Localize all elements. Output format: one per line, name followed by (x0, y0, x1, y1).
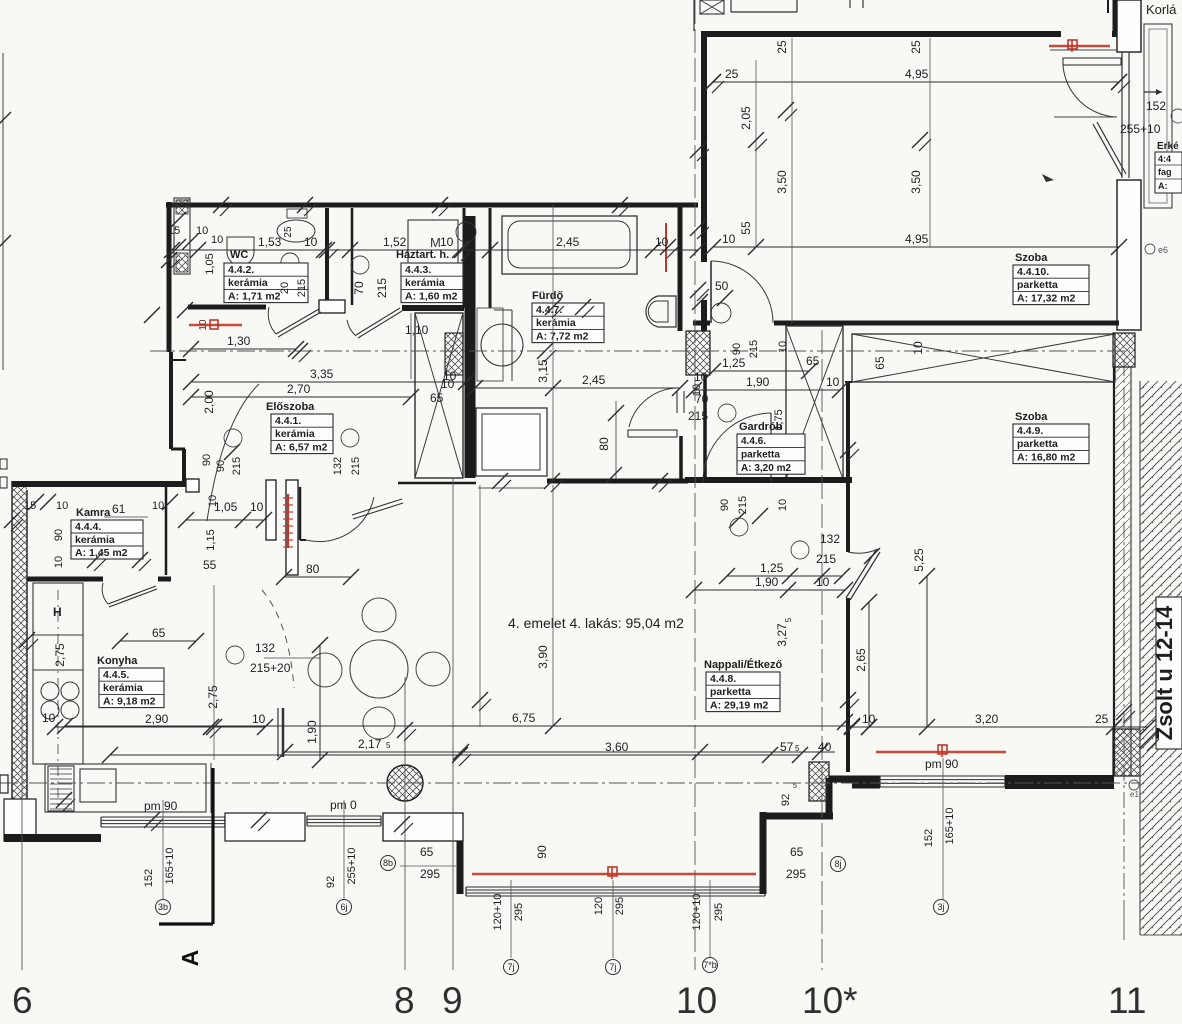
svg-text:10: 10 (252, 712, 266, 726)
svg-text:3,27: 3,27 (775, 623, 789, 647)
washer circle (456, 222, 476, 242)
svg-text:1,90: 1,90 (746, 375, 770, 389)
svg-text:8b: 8b (383, 858, 393, 868)
svg-text:1,25: 1,25 (760, 561, 784, 575)
horizontal axis upper (150, 350, 1130, 352)
svg-text:WC: WC (230, 249, 248, 261)
svg-text:H: H (53, 605, 62, 619)
svg-text:7*b: 7*b (703, 960, 717, 970)
svg-text:80: 80 (597, 437, 611, 451)
svg-text:11: 11 (1108, 980, 1146, 1021)
dim row 2,17 (285, 751, 461, 753)
svg-text:10: 10 (42, 711, 56, 725)
axis 9 line (452, 478, 454, 970)
svg-text:90: 90 (719, 499, 731, 511)
svg-text:Erké: Erké (1157, 141, 1179, 152)
svg-text:215: 215 (296, 279, 308, 297)
dining table (350, 640, 408, 698)
svg-text:3,50: 3,50 (909, 170, 923, 194)
svg-text:2,45: 2,45 (582, 373, 606, 387)
svg-text:2,75: 2,75 (206, 685, 220, 709)
svg-text:4.4.4.: 4.4.4. (75, 521, 101, 533)
svg-text:1,10: 1,10 (405, 323, 429, 337)
svg-text:10: 10 (56, 500, 68, 512)
svg-text:1,25: 1,25 (722, 356, 746, 370)
svg-text:295: 295 (614, 897, 626, 915)
bath toilet (646, 296, 676, 327)
terrace window long (466, 886, 765, 888)
svg-text:4.4.2.: 4.4.2. (228, 264, 254, 276)
svg-text:4.4.1.: 4.4.1. (275, 415, 301, 427)
svg-text:120+10: 120+10 (691, 893, 703, 930)
chair left (308, 653, 342, 687)
crosshatch block bottom right (1113, 729, 1140, 776)
svg-text:parketta: parketta (1017, 438, 1058, 450)
svg-text:Fürdő: Fürdő (532, 290, 563, 302)
door haztart arc (356, 308, 400, 335)
svg-text:50: 50 (715, 279, 729, 293)
svg-text:215: 215 (816, 552, 836, 566)
washing machine (408, 220, 458, 270)
dim 1,90 vert nappali (319, 645, 321, 760)
svg-text:80: 80 (306, 562, 320, 576)
svg-text:2,90: 2,90 (145, 712, 169, 726)
wall hall-nappali top (398, 482, 476, 485)
svg-text:4.4.8.: 4.4.8. (710, 673, 736, 685)
left edge squares (0, 459, 7, 469)
shaft X-box (415, 313, 463, 478)
svg-text:65: 65 (790, 845, 804, 859)
dim vertical line left szoba (755, 60, 757, 247)
svg-text:e6: e6 (1158, 245, 1168, 255)
left exterior wall crosshatch (12, 481, 27, 838)
svg-text:8: 8 (394, 980, 415, 1021)
svg-text:parketta: parketta (1017, 279, 1058, 291)
svg-text:120: 120 (593, 897, 605, 915)
svg-text:20: 20 (279, 282, 291, 294)
shaft square hall (476, 408, 547, 476)
svg-text:215: 215 (231, 457, 243, 475)
svg-text:10: 10 (53, 556, 65, 568)
wall Furdo west (465, 216, 476, 478)
e1 ref (1129, 780, 1139, 790)
hall stub wall C (299, 487, 302, 540)
axis 10* line (821, 330, 823, 970)
entrance door arc (207, 384, 259, 521)
hatch edge line (1139, 381, 1141, 935)
wall gardrob left (703, 375, 707, 482)
wall bottom of szoba 4.4.10 (693, 321, 710, 326)
circle handle eloszoba (224, 429, 242, 447)
window pm0 konyha (307, 815, 381, 817)
svg-text:A: 1,60 m2: A: 1,60 m2 (405, 290, 458, 302)
wall kamra bottom (27, 577, 103, 582)
wall right of szoba 4.4.10 lower (1121, 52, 1123, 178)
svg-text:2,00: 2,00 (202, 390, 216, 414)
window pm90 szoba 4.4.9 (880, 775, 1005, 777)
kamra door leaf (108, 586, 156, 604)
svg-text:90: 90 (535, 845, 549, 859)
red heater entrance (287, 494, 289, 548)
wall bottom of Haztart (402, 305, 464, 311)
wall left hall below (169, 352, 173, 449)
svg-text:6: 6 (12, 980, 33, 1021)
svg-text:3,60: 3,60 (605, 740, 629, 754)
svg-text:2,65: 2,65 (854, 648, 868, 672)
svg-text:6,75: 6,75 (512, 711, 536, 725)
svg-text:61: 61 (112, 502, 126, 516)
red radiator top right (1049, 45, 1110, 47)
svg-text:7j: 7j (609, 962, 616, 972)
svg-text:65: 65 (430, 391, 444, 405)
svg-text:3,90: 3,90 (536, 645, 550, 669)
ref 8b left (381, 856, 396, 871)
svg-text:Szoba: Szoba (1015, 252, 1048, 264)
wall right of szoba 4.4.10 upper (1117, 0, 1141, 52)
svg-text:A: 17,32 m2: A: 17,32 m2 (1017, 292, 1076, 304)
svg-text:40: 40 (818, 740, 832, 754)
door szoba449 leaf (846, 550, 876, 598)
svg-text:4:4: 4:4 (1158, 154, 1171, 164)
section line A (211, 768, 214, 924)
top ticks left block (170, 212, 186, 228)
red mark left WC (189, 324, 242, 326)
dim 2,70 row (191, 396, 411, 398)
svg-text:Szoba: Szoba (1015, 411, 1048, 423)
dim 2,75 vert2 (479, 485, 481, 727)
dim 2,45 row2 (475, 387, 680, 389)
balcony railing (1144, 24, 1172, 208)
svg-text:90: 90 (201, 454, 213, 466)
svg-text:152: 152 (923, 829, 935, 847)
wall ticks (213, 197, 229, 213)
svg-text:295: 295 (420, 867, 440, 881)
hall stub wall B (286, 480, 298, 575)
dim row 6,75 (65, 725, 852, 727)
wall terrace right step (760, 813, 833, 820)
svg-text:215+20: 215+20 (250, 661, 291, 675)
arrow right (1144, 91, 1162, 93)
svg-text:5: 5 (386, 741, 391, 750)
wall left of WC block (167, 202, 172, 352)
wall bottom szoba 4.4.9 right (1005, 775, 1114, 789)
small mark szoba (1042, 174, 1054, 182)
wall right of pm0 window (383, 813, 463, 841)
svg-text:2,17: 2,17 (358, 737, 382, 751)
svg-text:92: 92 (325, 876, 337, 888)
svg-text:10: 10 (207, 495, 219, 507)
svg-text:10: 10 (911, 341, 925, 355)
horizontal axis lower (0, 782, 1140, 784)
svg-text:255+10: 255+10 (1120, 122, 1161, 136)
crosshatch block top right (1113, 333, 1135, 367)
svg-text:2,70: 2,70 (287, 382, 311, 396)
svg-text:10: 10 (655, 235, 669, 249)
bath round sink (481, 324, 523, 366)
furdo niche (477, 308, 503, 381)
axis 10 line (694, 0, 696, 970)
door balcony second leaf (1097, 122, 1126, 174)
svg-text:92: 92 (780, 794, 792, 806)
svg-text:e1: e1 (1130, 790, 1139, 799)
svg-text:1,75: 1,75 (773, 409, 785, 430)
hall stub wall A (266, 480, 276, 540)
wall under X-band (845, 381, 852, 383)
svg-text:25: 25 (1095, 712, 1109, 726)
svg-text:90: 90 (731, 343, 743, 355)
svg-text:132: 132 (820, 532, 840, 546)
svg-text:A: 7,72 m2: A: 7,72 m2 (536, 330, 589, 342)
svg-text:5: 5 (795, 744, 800, 753)
haztart circle (351, 256, 369, 274)
svg-text:Nappali/Étkező: Nappali/Étkező (704, 658, 783, 671)
svg-text:295: 295 (513, 903, 525, 921)
svg-text:10: 10 (777, 499, 789, 511)
dim 10 40 right (837, 714, 853, 730)
axis 6 line (21, 690, 23, 970)
svg-text:3b: 3b (158, 902, 168, 912)
svg-text:10: 10 (196, 225, 208, 237)
axis 11 line (1123, 900, 1125, 940)
svg-text:Konyha: Konyha (97, 655, 138, 667)
wardrobe X-box gardrob (786, 326, 843, 479)
svg-text:10: 10 (211, 234, 223, 246)
svg-text:70: 70 (352, 281, 366, 295)
svg-text:1,90: 1,90 (755, 575, 779, 589)
terrace window refs right (709, 880, 711, 958)
hob burners (41, 682, 59, 700)
svg-text:65: 65 (152, 626, 166, 640)
svg-text:255+10: 255+10 (346, 847, 358, 884)
svg-text:4. emelet 4. lakás: 95,04 m2: 4. emelet 4. lakás: 95,04 m2 (508, 615, 684, 631)
svg-text:57: 57 (780, 740, 794, 754)
svg-text:4.4.9.: 4.4.9. (1017, 425, 1043, 437)
svg-text:4,95: 4,95 (905, 67, 929, 81)
svg-text:152: 152 (1146, 99, 1166, 113)
svg-text:4.4.3.: 4.4.3. (405, 264, 431, 276)
svg-text:10*: 10* (802, 980, 858, 1021)
svg-text:1,30: 1,30 (227, 334, 251, 348)
red radiator terrace (472, 873, 756, 876)
balcony wall stub top (1107, 0, 1109, 13)
dim 2,65 vert (868, 602, 870, 727)
party wall centerline (1123, 360, 1125, 900)
svg-text:25: 25 (725, 67, 739, 81)
svg-text:3,50: 3,50 (775, 170, 789, 194)
ref 8j right (831, 857, 846, 872)
kitchen bottom counter (45, 764, 206, 812)
wall gardrob bottom thick (685, 477, 852, 483)
svg-text:90: 90 (215, 460, 227, 472)
svg-text:9: 9 (442, 980, 463, 1021)
wall gardrob bottom (702, 478, 852, 484)
svg-text:6j: 6j (340, 902, 347, 912)
party wall right outer line (1113, 367, 1115, 776)
left edge line (2, 53, 4, 370)
svg-text:4.4.6.: 4.4.6. (741, 436, 766, 447)
svg-text:10: 10 (816, 575, 830, 589)
wall bottom of WC row (188, 305, 266, 310)
wall left of szoba 4.4.10 (701, 31, 707, 262)
svg-text:10: 10 (198, 319, 209, 331)
svg-text:pm 90: pm 90 (144, 799, 178, 813)
ref 3j (942, 758, 944, 900)
svg-text:215: 215 (375, 278, 389, 298)
svg-text:kerámia: kerámia (536, 317, 576, 329)
chair right (416, 652, 450, 686)
svg-text:10: 10 (862, 712, 876, 726)
door szoba4410 arc (710, 261, 712, 323)
dim row 3,20 (852, 726, 1148, 728)
zsolt label box (1156, 597, 1182, 749)
red radiator szoba 4.4.9 (876, 751, 1006, 753)
svg-text:7j: 7j (507, 962, 514, 972)
window pm90 konyha (101, 816, 225, 818)
wall left of szoba 4.4.9 (846, 382, 850, 552)
svg-text:A: 29,19 m2: A: 29,19 m2 (710, 699, 769, 711)
svg-text:3,20: 3,20 (975, 712, 999, 726)
svg-text:Előszoba: Előszoba (266, 401, 315, 413)
svg-text:4,95: 4,95 (905, 232, 929, 246)
dim 1,90 10 row (694, 589, 845, 591)
svg-text:4.4.5.: 4.4.5. (103, 669, 129, 681)
neighbor hatch upper (1140, 381, 1182, 935)
svg-text:A: 9,18 m2: A: 9,18 m2 (103, 695, 156, 707)
door arc hall to nappali (306, 497, 374, 542)
wall kamra top (12, 481, 186, 487)
kitchen sink square (80, 769, 116, 802)
svg-text:2,75: 2,75 (53, 643, 67, 667)
svg-text:55: 55 (203, 558, 217, 572)
svg-text:165+10: 165+10 (164, 847, 176, 884)
column crosshatched (387, 765, 423, 801)
svg-text:10: 10 (304, 235, 318, 249)
svg-text:65: 65 (873, 356, 887, 370)
dim row top block (172, 249, 698, 251)
dim 61 kamra (104, 516, 148, 518)
kitchen counter divider (33, 634, 83, 636)
door furdo leaf (628, 430, 677, 437)
svg-text:A:: A: (1158, 181, 1168, 191)
svg-text:1,90: 1,90 (305, 720, 319, 744)
door WC arc (276, 309, 319, 334)
svg-text:10: 10 (676, 980, 717, 1021)
top left column hatch (174, 198, 190, 274)
svg-text:parketta: parketta (710, 686, 751, 698)
svg-text:pm 90: pm 90 (925, 757, 959, 771)
svg-text:A: 6,57 m2: A: 6,57 m2 (275, 441, 328, 453)
e6 ref (1145, 244, 1155, 254)
wall Haztart right partition (463, 208, 466, 308)
svg-text:132: 132 (255, 641, 275, 655)
svg-text:5,25: 5,25 (912, 548, 926, 572)
wall top of szoba 4.4.10 (701, 31, 1061, 37)
svg-text:10: 10 (777, 341, 789, 353)
top edge lines (693, 0, 695, 31)
svg-text:Korlá: Korlá (1146, 2, 1177, 17)
svg-text:kerámia: kerámia (275, 428, 315, 440)
WC basin (227, 237, 254, 266)
red mark furdo dim (665, 223, 667, 272)
fridge hatched (48, 766, 74, 811)
axis 8 line (404, 677, 406, 970)
svg-text:165+10: 165+10 (944, 807, 956, 844)
dim row gardrob hall (727, 575, 842, 577)
dim 5,25 vert (926, 576, 928, 727)
dim 1,30 (191, 348, 296, 350)
dim row 3,60 (110, 754, 800, 756)
svg-text:215: 215 (737, 496, 749, 514)
svg-text:Háztart. h.: Háztart. h. (396, 249, 449, 261)
svg-text:parketta: parketta (741, 450, 780, 461)
svg-text:295: 295 (786, 867, 806, 881)
svg-text:25: 25 (775, 40, 789, 54)
dim 3,15 vert (552, 205, 554, 481)
top wall inner face (1050, 49, 1117, 51)
svg-text:kerámia: kerámia (228, 277, 268, 289)
svg-text:pm 0: pm 0 (330, 798, 357, 812)
svg-text:fag: fag (1158, 167, 1172, 177)
WC toilet (277, 220, 315, 242)
svg-text:5: 5 (784, 617, 793, 622)
svg-text:152: 152 (143, 869, 155, 887)
hall dashed arc (262, 590, 294, 688)
svg-text:A: 3,20 m2: A: 3,20 m2 (741, 463, 791, 474)
svg-text:3j: 3j (937, 902, 944, 912)
svg-text:10: 10 (250, 500, 264, 514)
terrace window refs (510, 880, 512, 958)
svg-text:3,35: 3,35 (310, 367, 334, 381)
svg-text:1,05: 1,05 (204, 253, 216, 274)
svg-text:10: 10 (440, 235, 454, 249)
left exterior wall lines (11, 481, 13, 838)
svg-text:295: 295 (713, 903, 725, 921)
wall Haztart left partition (351, 208, 354, 305)
svg-text:132: 132 (332, 457, 344, 475)
wall konyha bottom-left corner (4, 799, 36, 841)
svg-text:25: 25 (909, 40, 923, 54)
svg-text:4.4.10.: 4.4.10. (1017, 266, 1049, 278)
chair bottom (363, 707, 395, 739)
wall nappali bottom right (829, 776, 852, 783)
bathtub (502, 216, 637, 274)
svg-text:90: 90 (53, 529, 65, 541)
built-in wardrobe X-band (852, 334, 1115, 382)
dim 3,35 row (191, 381, 466, 383)
wall right of terrace window (760, 812, 767, 894)
svg-text:1,53: 1,53 (258, 235, 282, 249)
svg-text:15: 15 (24, 500, 36, 512)
bath sink circle small (711, 303, 731, 323)
door balcony leaf (1063, 58, 1121, 65)
counter dash line (210, 763, 212, 813)
svg-text:1,15: 1,15 (205, 529, 217, 550)
svg-text:5: 5 (793, 783, 797, 790)
dim row 4,95 lower (713, 246, 1119, 248)
svg-text:10: 10 (441, 377, 455, 391)
svg-text:99.92: 99.92 (177, 199, 190, 205)
svg-text:215: 215 (350, 457, 362, 475)
WC circle (281, 253, 299, 271)
door gardrob arc (703, 413, 771, 483)
dim row top szoba (713, 81, 1119, 83)
svg-text:A: 1,71 m2: A: 1,71 m2 (228, 290, 281, 302)
svg-text:kerámia: kerámia (405, 277, 445, 289)
wall bottom szoba 4.4.9 left (852, 776, 880, 789)
svg-text:215: 215 (748, 340, 760, 358)
wall kamra right (165, 484, 168, 575)
chair top (362, 598, 396, 632)
